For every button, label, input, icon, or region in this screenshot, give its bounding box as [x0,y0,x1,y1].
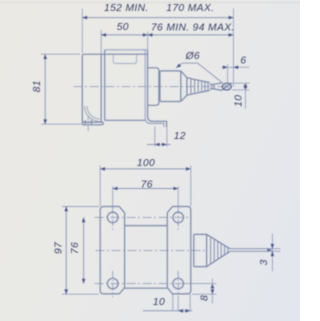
svg-text:97: 97 [54,241,65,254]
svg-text:50: 50 [117,22,129,33]
svg-text:3: 3 [259,259,270,265]
svg-text:76: 76 [70,242,81,254]
svg-text:10: 10 [153,297,165,308]
svg-text:100: 100 [137,158,155,169]
svg-text:12: 12 [174,131,186,142]
svg-text:81: 81 [32,80,43,92]
svg-text:Ø6: Ø6 [185,51,200,62]
svg-text:10: 10 [233,95,244,107]
svg-text:170 MAX.: 170 MAX. [166,3,214,14]
svg-text:152 MIN.: 152 MIN. [104,3,149,14]
svg-text:6: 6 [240,56,246,67]
svg-text:76: 76 [141,179,153,190]
svg-text:8: 8 [199,295,210,301]
svg-text:76 MIN. 94 MAX.: 76 MIN. 94 MAX. [151,23,235,34]
